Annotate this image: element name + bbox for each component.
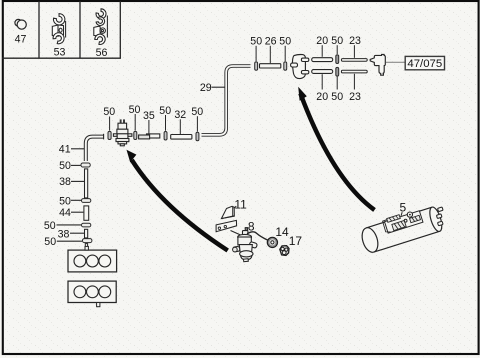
clip 56 hook 1: [96, 9, 106, 19]
clip 56 hook 3: [95, 34, 105, 44]
box 1 circles: [74, 255, 111, 267]
sleeve 50 (right of 26): [284, 62, 287, 70]
vertical chain: sleeve 50 a (horizontal): [81, 163, 90, 167]
leader: [269, 46, 271, 63]
canister vent slots 2: [392, 220, 406, 230]
svg-text:29: 29: [200, 82, 212, 94]
leader to 47/075 box: [386, 61, 405, 63]
leader: [179, 119, 181, 134]
sleeve 50 d: [83, 239, 92, 243]
canister 5 body: [359, 206, 444, 255]
canister port 2: [436, 214, 442, 219]
bracket 11 mid line: [221, 216, 234, 219]
elbow connector (to 47/075): [370, 54, 385, 75]
svg-text:50: 50: [129, 104, 141, 116]
svg-text:17: 17: [289, 234, 303, 248]
leader: [284, 46, 286, 61]
svg-text:50: 50: [103, 106, 115, 118]
leader: [71, 180, 84, 182]
svg-text:26: 26: [265, 36, 277, 48]
svg-text:20: 20: [316, 35, 328, 47]
svg-text:14: 14: [275, 225, 289, 239]
box 47/075: [405, 56, 444, 69]
leader 29: [212, 86, 226, 88]
tube 44: [84, 206, 89, 220]
svg-text:23: 23: [349, 91, 361, 103]
canister port 3: [437, 221, 443, 226]
tube 20 bottom: [312, 70, 333, 74]
clip 53 bottom hook: [53, 33, 64, 44]
hose 41 (curved): [86, 137, 104, 161]
canister vent slots 1: [387, 215, 401, 223]
svg-text:47: 47: [15, 34, 27, 46]
leader: [71, 211, 83, 213]
rod 23 bottom: [341, 70, 367, 73]
clip 56 right edge: [106, 16, 108, 38]
rod 23 top: [341, 59, 367, 62]
T-valve (thermo valve): [113, 119, 132, 145]
svg-text:50: 50: [279, 36, 291, 48]
leader: [196, 116, 198, 131]
sleeve 50 on tube 29 top: [255, 62, 258, 70]
box 2 bottom tab: [97, 303, 100, 307]
leader: [255, 46, 257, 61]
leader: [57, 240, 82, 242]
svg-text:50: 50: [331, 35, 343, 47]
stub tube into box: [85, 244, 87, 250]
washer 14: [267, 237, 277, 247]
bracket 11 plate: [216, 220, 237, 231]
leader: [165, 115, 167, 131]
canister grommet: [407, 212, 412, 217]
clip 53 top hook: [53, 14, 64, 25]
clip 53 body: [52, 25, 63, 36]
canister small hole: [404, 219, 407, 222]
canister vent slots 3: [410, 215, 421, 222]
parts box divider 1: [38, 1, 40, 58]
bracket 11 fin inner edge: [232, 207, 234, 216]
svg-text:44: 44: [59, 207, 71, 219]
parts box divider 2: [79, 1, 81, 58]
leader: [134, 114, 136, 131]
sleeve 50 left of T-valve: [108, 131, 111, 139]
sleeve 50 (right of 32): [196, 132, 199, 141]
tube 38 b: [85, 229, 88, 238]
leader 41: [71, 148, 84, 150]
bracket hole 2: [224, 225, 226, 227]
svg-text:50: 50: [331, 91, 343, 103]
tube 35: [139, 134, 160, 139]
bracket-valve line: [231, 231, 247, 238]
leaders bottom: [321, 74, 323, 89]
leader: [71, 164, 81, 166]
svg-text:50: 50: [59, 160, 71, 172]
sleeve 50 c: [82, 223, 91, 227]
box 1 tab: [85, 246, 88, 250]
svg-text:50: 50: [44, 236, 56, 248]
canister port 1: [437, 207, 443, 212]
clip 56 body: [94, 26, 106, 36]
svg-text:56: 56: [96, 47, 108, 59]
tube 32: [171, 135, 192, 140]
leader 11: [234, 206, 237, 208]
sleeve 50 b: [82, 199, 91, 203]
canister top panel: [385, 211, 423, 233]
svg-text:20: 20: [316, 91, 328, 103]
nut 17: [280, 246, 289, 256]
svg-text:38: 38: [59, 176, 71, 188]
leader 5: [401, 212, 402, 216]
svg-text:11: 11: [234, 198, 247, 212]
valve 8: [233, 228, 258, 262]
Y-connector left stub: [291, 63, 298, 67]
big arrow 1 (valve to T-valve): [127, 150, 228, 251]
box 2 circles: [74, 286, 111, 298]
svg-text:50: 50: [44, 220, 56, 232]
clip 53 right edge: [65, 21, 67, 38]
leader: [109, 117, 111, 131]
svg-text:50: 50: [250, 36, 262, 48]
hose valve to washer: [247, 232, 267, 240]
sleeve 50 top right: [336, 55, 339, 64]
leader: [70, 232, 84, 234]
gasket box 1: [68, 250, 117, 272]
hose 41 end cap: [103, 134, 105, 140]
leaders top: [321, 45, 323, 57]
tube 20 top: [312, 58, 333, 62]
clip 56 hook 2: [96, 17, 105, 26]
tube 26: [260, 64, 281, 68]
svg-text:41: 41: [59, 143, 71, 155]
leader: [148, 120, 150, 134]
part 47 plug icon: [15, 19, 26, 29]
bracket 11 fin: [221, 206, 234, 218]
Y-connector lower right stub: [301, 71, 308, 74]
big arrow 2 (canister to Y-connector): [298, 87, 374, 210]
svg-text:23: 23: [349, 35, 361, 47]
svg-text:53: 53: [54, 47, 66, 59]
sleeve 50 bottom right: [336, 67, 339, 76]
svg-text:50: 50: [59, 195, 71, 207]
tube 29 (Z-shaped pipe): [202, 66, 251, 135]
sleeve 50 right of T-valve: [134, 131, 137, 139]
gasket box 2: [68, 281, 116, 302]
Y-connector upper right stub: [301, 58, 308, 61]
tube 38 a: [85, 169, 88, 198]
Y-connector body: [292, 55, 305, 79]
bracket hole 1: [218, 227, 220, 229]
svg-text:38: 38: [58, 228, 70, 240]
leader: [57, 224, 82, 226]
svg-text:5: 5: [399, 201, 406, 215]
svg-text:47/075: 47/075: [407, 58, 442, 70]
canister panel left step: [383, 220, 391, 232]
sleeve 50 (between 35 and 32): [164, 132, 167, 141]
leader: [71, 199, 81, 201]
parts box frame (top-left): [2, 1, 120, 58]
